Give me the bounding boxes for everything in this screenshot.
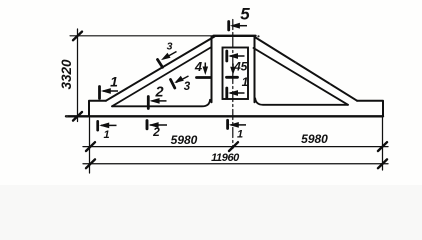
- section mark 3 (lower, on diagonal): [171, 76, 189, 88]
- svg-text:2: 2: [152, 125, 160, 139]
- top extension line: [70, 35, 216, 37]
- left web opening bottom: [112, 100, 210, 107]
- svg-text:3320: 3320: [59, 59, 74, 90]
- vertical dimension line 3320: [77, 29, 79, 122]
- svg-text:4: 4: [194, 59, 203, 74]
- svg-text:1: 1: [242, 75, 249, 89]
- svg-text:3: 3: [184, 81, 191, 93]
- scan speck on right diagonal: [295, 62, 297, 64]
- right web opening bottom: [255, 98, 348, 105]
- column right edge: [254, 37, 256, 103]
- section mark 5 (top of cap): [229, 22, 247, 31]
- left diagonal strut outer edge: [106, 37, 215, 101]
- scan speck at cap right corner: [257, 35, 259, 37]
- right diagonal strut outer edge: [256, 38, 358, 101]
- svg-text:1: 1: [110, 74, 118, 90]
- column inner opening: [223, 48, 249, 100]
- dimension line 11960: [83, 163, 388, 165]
- left extension line below base: [89, 118, 91, 173]
- section mark 2 (below base): [147, 121, 167, 129]
- scan speck left of base: [66, 115, 68, 117]
- base slab outline: [89, 101, 383, 116]
- column centerline: [232, 20, 234, 149]
- svg-text:5980: 5980: [301, 132, 328, 146]
- svg-text:11960: 11960: [211, 152, 240, 164]
- section mark 4 (left of column, arrow down): [197, 63, 212, 78]
- section mark 3 (upper, on diagonal): [158, 52, 177, 68]
- column left edge: [211, 37, 213, 103]
- dim tick top of 3320: [73, 32, 82, 41]
- svg-text:1: 1: [103, 129, 109, 141]
- paper background: [0, 0, 422, 185]
- section mark 1 (inside column, bottom): [227, 88, 245, 98]
- dim tick right 11960: [378, 159, 387, 168]
- dim tick centre 5980: [229, 142, 238, 151]
- dim tick right 5980: [378, 142, 387, 151]
- column top edge: [214, 35, 256, 37]
- svg-text:1: 1: [237, 129, 243, 141]
- section mark 1 (below base, left): [98, 121, 117, 130]
- dimension line 5980+5980: [83, 146, 388, 148]
- right extension line below base: [382, 116, 384, 170]
- dim tick left 5980: [86, 142, 95, 151]
- section mark 2 (above base, mid): [148, 97, 166, 109]
- section mark 5 (inside column, top): [227, 51, 245, 61]
- svg-text:5: 5: [241, 60, 248, 74]
- svg-text:3: 3: [167, 41, 173, 53]
- svg-text:5980: 5980: [171, 133, 198, 147]
- section mark 1 (above base, left): [100, 87, 119, 99]
- base slab bottom edge: [66, 115, 383, 117]
- left diagonal strut inner edge: [112, 47, 212, 106]
- svg-text:5: 5: [240, 5, 250, 24]
- scan speck on right diagonal lower: [329, 83, 331, 85]
- section mark 4 (inside column, arrow down): [227, 64, 238, 78]
- dim tick bottom of 3320: [73, 112, 82, 121]
- svg-text:2: 2: [154, 85, 163, 101]
- dim tick left 11960: [86, 159, 95, 168]
- section mark 1 (below base, centre): [228, 120, 246, 128]
- bottom-left extension of base bottom: [66, 115, 89, 117]
- right diagonal strut inner edge: [254, 48, 349, 105]
